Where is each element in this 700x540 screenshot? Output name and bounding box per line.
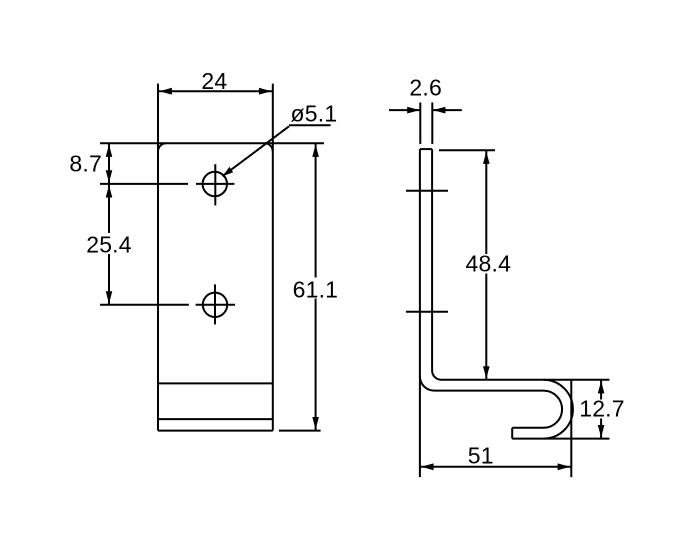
svg-text:ø5.1: ø5.1: [291, 100, 338, 126]
hook end cap: [511, 428, 513, 439]
leader line for hole diameter: [223, 126, 290, 176]
dimension 25.4 line: [108, 184, 110, 305]
dimension 48.4 top extension: [439, 149, 495, 151]
arrowhead dim25.4 bottom: [106, 291, 113, 303]
side view hole 2 crossing line: [406, 311, 448, 313]
svg-text:25.4: 25.4: [86, 232, 132, 258]
hole H2 centerline extension: [100, 304, 189, 306]
dimension 51 right extension: [570, 380, 572, 477]
side view outer surface: left edge, bend, bottom, hook inner curl, return top: [420, 149, 562, 428]
svg-text:2.6: 2.6: [409, 75, 442, 101]
dimension 48.4 line: [485, 150, 487, 379]
corner fillet top-right: [265, 143, 273, 151]
bend line upper: [158, 382, 273, 384]
front view plate top edge with extension: [100, 142, 324, 144]
dimension 8.7 line: [108, 143, 110, 184]
arrowhead dim61.1 bottom: [312, 417, 319, 429]
corner fillet top-left: [158, 143, 166, 151]
hole H2 crosshair horizontal: [196, 304, 235, 306]
dimension 51 line: [420, 466, 571, 468]
bend line lower: [158, 418, 273, 420]
leader underline: [289, 124, 331, 126]
hole H1 crosshair vertical: [214, 164, 216, 205]
arrowhead dim8.7 bottom: [106, 170, 113, 182]
arrowhead dim48.4 top: [483, 152, 490, 164]
svg-text:51: 51: [468, 443, 494, 469]
front view plate bottom edge: [158, 430, 273, 432]
arrowhead dim2.6 left: [407, 107, 419, 114]
dimension 24 line: [158, 90, 273, 92]
arrowhead dim12.7 top: [598, 381, 605, 393]
dimension 2.6 right extension: [431, 103, 433, 144]
arrowhead dim48.4 bottom: [483, 366, 490, 378]
white gaps behind on-line dimension texts: [83, 233, 627, 419]
arrowhead dim51 left: [421, 463, 433, 470]
dimension 2.6 left extension: [419, 103, 421, 144]
hole H2 crosshair vertical: [214, 284, 216, 324]
dimension 2.6 right line: [432, 109, 462, 111]
svg-text:24: 24: [201, 68, 227, 94]
arrowhead dim24 left: [160, 88, 172, 95]
dimension 51 left extension: [419, 376, 421, 477]
svg-text:12.7: 12.7: [579, 396, 625, 422]
arrowhead dim25.4 top: [106, 185, 113, 197]
arrowhead dim8.7 top: [106, 145, 113, 157]
arrowhead leader at hole: [223, 167, 234, 176]
hole H2 circle: [203, 293, 227, 317]
dimension 61.1 bottom extension: [279, 430, 321, 432]
side view inner surface: right edge, inner bend, top of base, hook outer curl, return bottom: [432, 149, 573, 439]
svg-text:8.7: 8.7: [69, 150, 102, 176]
svg-text:48.4: 48.4: [466, 251, 512, 277]
front view plate right edge (incl. dim-24 extension above): [272, 84, 274, 431]
dimension 2.6 left line: [389, 109, 420, 111]
hole H1 centerline extension: [100, 183, 188, 185]
dimension 12.7 line: [600, 380, 602, 439]
hole H1 circle: [203, 172, 227, 196]
svg-text:61.1: 61.1: [293, 276, 339, 302]
arrowhead dim61.1 top: [312, 145, 319, 157]
dimension 12.7 top extension: [544, 379, 610, 381]
arrowhead dim51 right: [558, 463, 570, 470]
arrowhead dim24 right: [259, 88, 271, 95]
dimension 12.7 bottom extension: [544, 438, 610, 440]
arrowhead dim2.6 right: [433, 107, 445, 114]
arrowhead dim12.7 bottom: [598, 425, 605, 437]
front view plate left edge (incl. dim-24 extension above): [157, 84, 159, 431]
hole H1 crosshair horizontal: [196, 183, 234, 185]
dimension 61.1 line: [315, 143, 317, 430]
side view hole 1 crossing line: [406, 190, 448, 192]
side view top edge: [420, 148, 432, 150]
